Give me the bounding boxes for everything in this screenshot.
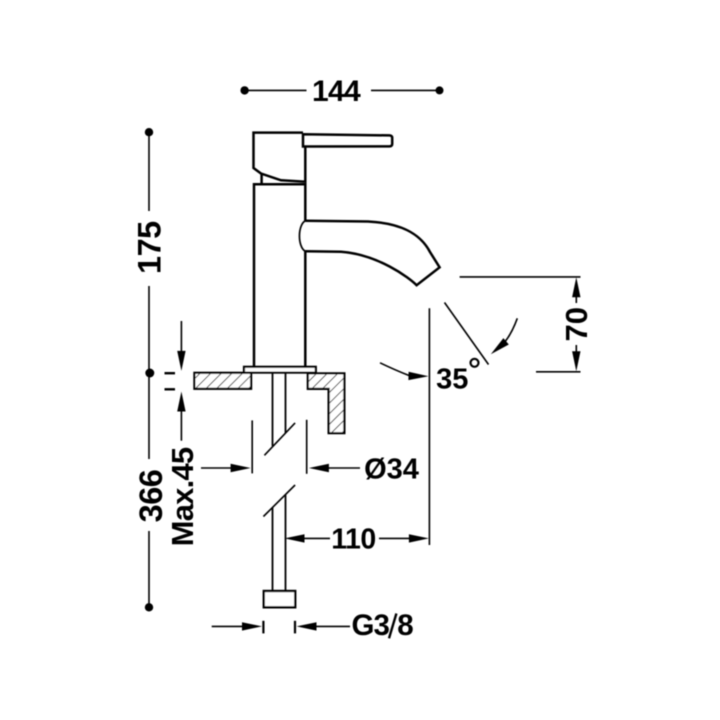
svg-text:Ø34: Ø34 [364, 454, 419, 486]
svg-text:366: 366 [133, 470, 169, 523]
svg-text:35: 35 [436, 364, 468, 396]
svg-text:70: 70 [559, 307, 594, 341]
svg-text:144: 144 [312, 75, 361, 108]
svg-text:G3: G3 [352, 609, 390, 642]
svg-text:Max.45: Max.45 [165, 447, 200, 546]
svg-text:110: 110 [331, 524, 375, 556]
svg-text:175: 175 [132, 221, 168, 274]
svg-text:8: 8 [397, 609, 413, 642]
